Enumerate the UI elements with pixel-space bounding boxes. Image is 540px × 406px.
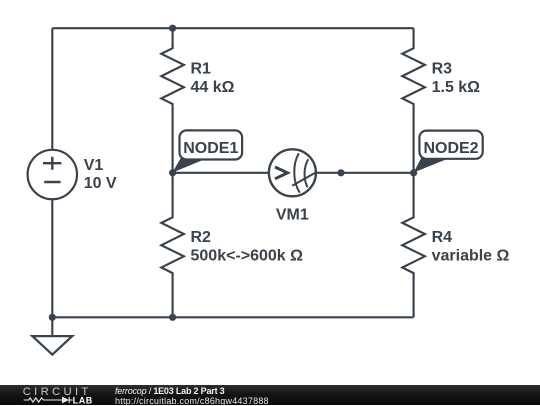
junction voltmeter right — [337, 169, 344, 176]
svg-text:LAB: LAB — [73, 395, 93, 405]
label R3 value — [432, 61, 481, 97]
label NODE1 text — [183, 140, 238, 157]
svg-text:R2: R2 — [191, 229, 212, 246]
svg-text:R3: R3 — [432, 61, 453, 78]
voltmeter VM1 — [269, 149, 316, 196]
ground — [32, 317, 72, 354]
wire left vertical upper — [51, 28, 53, 150]
label R1 value — [191, 61, 235, 97]
resistor R3 — [402, 28, 425, 173]
label NODE2 text — [423, 140, 478, 157]
label V1 value — [84, 157, 117, 192]
svg-text:1.5 kΩ: 1.5 kΩ — [432, 79, 481, 96]
svg-text:500k<->600k Ω: 500k<->600k Ω — [191, 248, 304, 265]
svg-text:10 V: 10 V — [84, 175, 117, 192]
callout NODE2 — [414, 131, 483, 173]
circuitlab logo — [0, 384, 100, 405]
wire node1 to voltmeter — [173, 172, 269, 174]
resistor R1 — [161, 28, 184, 173]
callout NODE1 — [172, 130, 242, 172]
junction bottom middle — [169, 314, 176, 321]
resistor R4 — [402, 173, 425, 317]
wire voltmeter to node2 — [316, 172, 414, 174]
resistor R2 — [161, 173, 184, 317]
svg-text:NODE2: NODE2 — [423, 140, 478, 157]
svg-text:NODE1: NODE1 — [183, 140, 238, 157]
footer line 1 — [115, 386, 224, 396]
footer line 2 — [115, 396, 269, 406]
footer bar — [0, 385, 540, 406]
svg-text:44 kΩ: 44 kΩ — [191, 79, 235, 96]
label R2 value — [191, 229, 304, 265]
junction bottom left — [49, 314, 56, 321]
svg-text:V1: V1 — [84, 157, 104, 174]
label R4 value — [432, 229, 510, 265]
label VM1 — [276, 207, 309, 224]
voltage source V1 — [28, 150, 77, 199]
svg-text:VM1: VM1 — [276, 207, 309, 224]
node NODE1 junction — [169, 169, 176, 176]
svg-text:R4: R4 — [432, 229, 453, 246]
wire top horizontal — [52, 27, 413, 29]
svg-text:variable Ω: variable Ω — [432, 248, 510, 265]
node NODE2 junction — [410, 169, 417, 176]
svg-text:R1: R1 — [191, 61, 212, 78]
junction top — [169, 25, 176, 32]
wire bottom horizontal — [52, 316, 413, 318]
wire left vertical lower — [51, 199, 53, 317]
